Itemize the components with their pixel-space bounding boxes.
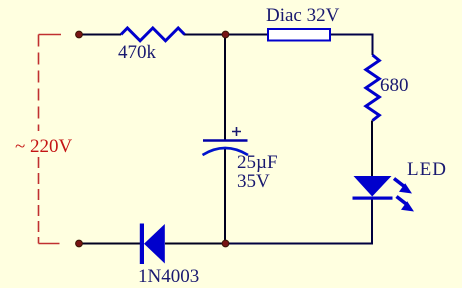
AC source dashed line vertical upper: [38, 35, 40, 132]
wire middle: node B down to capacitor: [224, 35, 226, 141]
wire right: resistor 680 to LED: [371, 121, 373, 178]
diode D2 1N4003 triangle: [144, 224, 165, 264]
resistor R 680 zigzag: [366, 55, 379, 121]
capacitor C1 top plate: [203, 139, 248, 142]
svg-text:Diac 32V: Diac 32V: [266, 5, 340, 26]
diode D2 1N4003 cathode bar: [140, 224, 144, 265]
wire top: node B to diac: [225, 34, 267, 36]
node A terminal dot: [76, 31, 83, 38]
AC source dashed line bottom horizontal: [39, 243, 60, 245]
svg-text:680: 680: [380, 75, 409, 96]
wire right: corner down to resistor 680: [372, 35, 374, 56]
wire top: resistor R1 to node B: [184, 34, 225, 36]
node B junction dot: [222, 31, 229, 38]
resistor R 470k zigzag: [121, 28, 185, 41]
wire bottom: corner to node D: [225, 243, 373, 245]
svg-text:LED: LED: [407, 159, 447, 180]
wire bottom: node D to diode: [165, 243, 225, 245]
svg-text:470k: 470k: [118, 42, 157, 63]
LED D3 triangle: [354, 176, 392, 197]
AC source dashed line vertical lower: [38, 157, 40, 244]
svg-text:35V: 35V: [237, 171, 270, 192]
LED arrow 1: [394, 179, 412, 194]
svg-text:1N4003: 1N4003: [138, 266, 199, 287]
wire bottom: diode to node C: [79, 243, 140, 245]
LED arrow 2: [397, 197, 415, 212]
node C terminal dot: [76, 240, 83, 247]
capacitor C1 plus sign: [232, 127, 241, 136]
wire top: node A to resistor R1: [79, 34, 121, 36]
wire right: LED to bottom-right corner: [371, 199, 373, 244]
svg-text:25µF: 25µF: [237, 152, 278, 173]
diac D1 box: [268, 29, 330, 41]
node D junction dot: [222, 240, 229, 247]
wire middle: capacitor to node D: [224, 149, 226, 244]
AC source dashed line top horizontal: [39, 34, 62, 36]
wire top: diac to top-right corner: [331, 34, 374, 36]
svg-text:~ 220V: ~ 220V: [15, 136, 73, 157]
capacitor C1 bottom curved plate: [203, 148, 249, 155]
LED D3 cathode bar: [353, 197, 393, 200]
